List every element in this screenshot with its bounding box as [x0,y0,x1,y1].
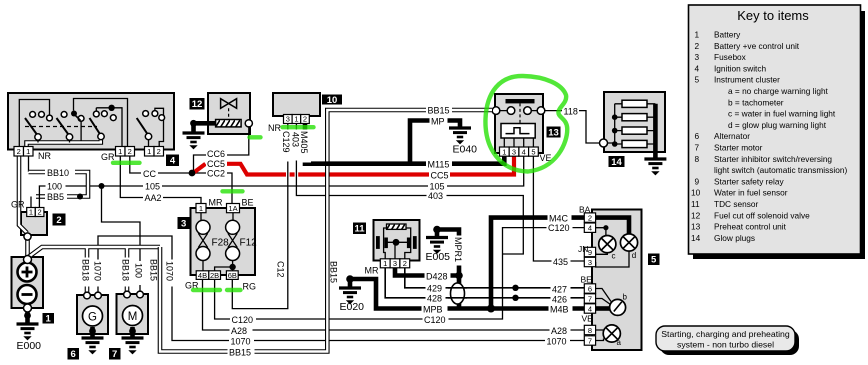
svg-text:MR: MR [209,198,223,208]
switch internal trace group1 to pin2 [19,100,49,147]
label MPB [422,304,448,315]
label 5 [648,254,660,266]
label M4B [549,304,573,315]
svg-text:M115: M115 [428,159,450,169]
svg-text:1: 1 [502,147,506,156]
svg-text:a = no charge warning light: a = no charge warning light [728,86,829,96]
svg-text:BE: BE [242,198,254,208]
TDC coil [387,224,407,229]
timer box with pulse symbol [501,124,535,139]
wire 403 [296,124,523,255]
label MP [430,116,448,127]
wire 435 [533,156,584,261]
svg-text:4: 4 [170,156,176,167]
svg-text:BB5: BB5 [47,192,64,202]
svg-text:E005: E005 [426,251,451,263]
label MPR1 [453,236,465,266]
svg-text:13: 13 [691,222,701,232]
wire BB5 left segment [30,197,32,209]
fuse F28 [200,213,202,221]
svg-text:8: 8 [588,326,592,335]
switch bottom bus stubs [38,140,149,147]
svg-text:1070: 1070 [231,336,251,346]
svg-text:11: 11 [691,199,700,209]
svg-text:Key to items: Key to items [737,8,809,23]
label A28 right [550,325,571,336]
svg-text:14: 14 [611,157,622,168]
starter motor 7 body [117,294,149,334]
title box shadow [660,330,799,355]
svg-text:Battery +ve control unit: Battery +ve control unit [714,41,800,51]
svg-text:4: 4 [522,147,526,156]
label 12 [190,98,205,110]
svg-text:E000: E000 [17,340,42,352]
label CC [141,168,158,179]
svg-text:Fusebox: Fusebox [714,52,747,62]
wire 100/105 net [39,156,523,208]
wire BB10 left segment [28,156,30,172]
svg-text:403: 403 [291,132,301,147]
alternator ground [90,327,95,338]
glow plugs input terminal [600,139,608,147]
switch blade 4 [137,118,149,136]
tachometer b [610,299,626,315]
label 100 starter [134,261,146,285]
label 3 [178,217,191,229]
svg-text:5: 5 [695,75,700,85]
junction CC [189,170,196,177]
svg-text:10: 10 [327,95,338,106]
alternator 6 body [77,295,108,334]
label BB5 [46,192,67,203]
svg-text:MP: MP [431,116,445,126]
junction BB10/BB5 [77,194,83,200]
switch internal trace group3 [96,108,122,147]
svg-text:1: 1 [383,259,387,268]
glow plug elements [622,100,647,107]
svg-text:1: 1 [118,147,122,156]
battery control unit pins 1,2 [27,208,44,217]
svg-text:6: 6 [695,131,700,141]
TDC sensor 11 body [374,220,420,261]
key box [689,5,861,254]
svg-text:2: 2 [588,213,592,222]
svg-text:5: 5 [531,147,535,156]
switch top contacts group4 [143,111,149,117]
svg-text:JN: JN [578,244,588,254]
alternator G symbol [83,306,103,326]
svg-text:light switch (automatic transm: light switch (automatic transmission) [714,165,847,175]
label C120 upper [547,222,573,233]
ground E005 [426,238,448,254]
svg-text:A28: A28 [551,326,567,336]
pin stubs 13 [504,138,533,147]
svg-text:BB10: BB10 [47,168,69,178]
solenoid valve 12 body [208,93,250,134]
svg-text:M: M [128,311,138,323]
wire 118 [545,111,600,143]
svg-text:427: 427 [552,284,567,294]
svg-text:14: 14 [691,233,701,243]
svg-text:CC5: CC5 [431,171,449,181]
battery positive post [24,256,32,264]
label 427 [551,284,571,295]
svg-text:4: 4 [588,304,592,313]
svg-text:7: 7 [112,349,117,360]
wire MP to ground E040 [410,121,460,164]
inline connector oval [451,283,465,304]
label BB18 alternator [81,258,93,287]
label C129 [281,130,294,162]
svg-text:11: 11 [354,224,365,235]
battery plus terminal [18,263,37,282]
label 7 [109,348,121,360]
svg-text:NR: NR [38,151,51,161]
wire M4C branch [491,218,584,309]
svg-text:12: 12 [691,210,701,220]
label M405 [299,130,311,163]
svg-text:a: a [617,338,622,347]
label 435 [552,256,571,267]
label 11 [353,223,366,235]
svg-text:3: 3 [512,147,516,156]
svg-text:1: 1 [199,204,203,213]
svg-text:BE: BE [581,275,593,285]
svg-text:13: 13 [548,127,559,138]
wire AA2 [120,156,201,209]
svg-text:Battery: Battery [714,30,741,40]
glow plugs right bus [647,104,655,144]
svg-text:6: 6 [588,284,592,293]
lamp a feeds [596,330,604,341]
svg-text:8: 8 [695,154,700,164]
svg-text:E020: E020 [340,301,365,313]
svg-text:2: 2 [17,147,21,156]
ground E000 [17,324,39,340]
svg-text:9: 9 [695,176,700,186]
fusebox junction dot [229,264,235,270]
svg-text:429: 429 [427,284,442,294]
label 6 [68,348,80,360]
svg-text:3: 3 [393,259,397,268]
wire MPB / M4B from ground E020 [350,279,584,309]
svg-text:2: 2 [303,115,307,124]
label 1070 right [545,336,570,347]
label 1 [43,313,55,325]
cluster wire to lamp d [596,218,629,234]
svg-text:BB15: BB15 [229,347,251,357]
green circle around preheat unit [485,76,567,172]
wire C129 / C12 [232,124,287,309]
label BB18 starter [121,258,133,287]
battery control unit 2 body [21,212,47,235]
ignition switch 4 body [8,93,174,150]
svg-text:435: 435 [553,257,568,267]
label BB15 top [426,105,452,116]
warning lamp d [620,234,637,251]
svg-text:F28: F28 [212,238,230,249]
svg-text:Ignition switch: Ignition switch [714,63,766,73]
svg-text:4: 4 [588,224,592,233]
switch top contacts group2 [61,112,67,118]
wire 1070 net [98,236,584,341]
svg-text:M4C: M4C [549,213,569,223]
cable control unit to battery post [25,239,30,256]
svg-text:CC5: CC5 [207,159,225,169]
label C120 bottom left [230,314,256,325]
label 100 [46,181,66,192]
svg-text:BB15: BB15 [149,259,159,281]
svg-text:VE: VE [582,314,594,324]
label BB15 bottom [228,347,255,358]
switch bottom bus [27,140,101,148]
label 10 [322,95,342,106]
svg-text:c = water in fuel warning ligh: c = water in fuel warning light [728,109,836,119]
wire CC5 red highlight [193,164,206,174]
top bar [506,99,535,103]
cable battery positive bus [29,247,161,295]
svg-text:G: G [88,312,97,324]
ground at solenoid [183,133,205,149]
ground at glow plugs [644,159,666,175]
switch feed marker dot group2 [71,111,77,117]
switch blade 2 [57,118,70,136]
svg-text:MPB: MPB [423,304,443,314]
svg-text:AA2: AA2 [145,193,162,203]
battery minus terminal [18,285,37,304]
splice 427 [512,285,518,291]
wire CC / CC2 [130,156,232,209]
svg-text:d: d [632,251,636,260]
wire M405 / M115 to preheat pin1 [305,124,504,164]
valve symbol [221,99,237,109]
tachometer feeds [596,289,611,305]
label BB10 [46,167,75,178]
alternator terminals [84,292,91,299]
svg-text:403: 403 [428,191,443,201]
relay contacts [492,107,500,115]
svg-text:2: 2 [695,41,700,51]
svg-text:BA: BA [579,205,591,215]
wire 428/426 [385,268,584,298]
svg-text:c: c [612,252,616,261]
svg-text:D428: D428 [426,271,448,281]
ignition connector3 pins 1,2 [145,147,164,157]
starter motor ground [130,327,135,338]
svg-text:2: 2 [403,259,407,268]
battery control unit lower terminal [24,233,31,240]
fusebox 3 body [191,208,256,275]
svg-text:M4B: M4B [550,304,569,314]
ground E040 [449,128,471,144]
water in fuel sensor 10 body [273,93,320,116]
green mark sensor pins [283,125,314,129]
svg-text:4: 4 [695,63,700,73]
wire C120 net [215,228,585,319]
battery negative post [24,304,32,312]
svg-text:Instrument cluster: Instrument cluster [714,75,780,85]
svg-text:b: b [623,293,628,302]
svg-text:3: 3 [695,52,700,62]
svg-text:100: 100 [47,182,62,192]
svg-text:A28: A28 [231,326,247,336]
fusebox bottom pins 4B,2B,6B [196,271,238,280]
svg-text:105: 105 [430,182,445,192]
ignition connector2 pins 1,2 [116,147,135,157]
svg-text:100: 100 [134,263,144,278]
green mark fusebox 1A [223,189,243,193]
svg-text:Starter safety relay: Starter safety relay [714,176,784,186]
wire 100 branch to starter motor [102,186,141,295]
svg-text:MPR1: MPR1 [453,237,463,262]
green mark fusebox 4B 2B [193,288,220,292]
svg-text:7: 7 [695,143,700,153]
svg-text:2: 2 [56,215,61,226]
svg-text:GR: GR [11,200,25,210]
svg-text:C12: C12 [276,261,286,278]
svg-text:MR: MR [365,266,379,276]
svg-text:12: 12 [192,99,203,110]
label A28 left [230,325,253,336]
switch internal trace group4 [155,108,164,146]
svg-text:6B: 6B [228,271,237,280]
key box shadow [693,11,865,259]
label CC2 [206,168,227,178]
fusebox top pins 1,1A [196,204,240,213]
svg-text:9: 9 [588,248,592,257]
TDC pins 1,3,2 [380,259,409,268]
svg-text:Starter motor: Starter motor [714,143,763,153]
switch blade 1 [25,118,38,136]
battery 1 body [12,257,44,308]
svg-text:BB18: BB18 [121,259,131,281]
svg-text:10: 10 [691,188,701,198]
svg-text:105: 105 [145,182,160,192]
label CC6 [206,149,227,160]
label 4 [166,155,179,167]
svg-text:d = glow plug warning light: d = glow plug warning light [728,120,827,130]
battery negative to ground E000 [25,308,30,324]
fuse F12 [232,213,234,221]
switch bottom contacts [35,134,41,140]
svg-text:426: 426 [552,294,567,304]
svg-text:Glow plugs: Glow plugs [714,233,755,243]
wire 429/427 [405,268,585,288]
switch feed marker dot group3 [108,105,114,111]
label 105 left [143,181,162,192]
svg-text:NR: NR [268,123,281,133]
label 1070 alternator [93,260,105,287]
svg-text:CC: CC [143,169,156,179]
svg-text:Fuel cut off solenoid valve: Fuel cut off solenoid valve [714,210,810,220]
cable battery positive from ignition pin2 [19,156,27,233]
svg-text:428: 428 [427,294,442,304]
svg-text:RG: RG [243,282,257,292]
svg-text:C120: C120 [424,315,446,325]
green mark solenoid output [250,135,261,139]
wire CC6 [194,127,249,173]
label 426 [551,294,571,305]
ground E020 [346,275,354,283]
svg-text:CC2: CC2 [207,169,225,179]
label 1070 vertical [165,260,177,287]
svg-text:C120: C120 [548,223,570,233]
preheat control unit 13 body [495,94,543,153]
svg-text:BB15: BB15 [428,106,450,116]
solenoid coil [216,120,242,127]
svg-text:3: 3 [181,218,186,229]
warning lamp c [599,236,616,253]
switch internal trace group2 top [74,99,128,147]
svg-text:2: 2 [157,147,161,156]
svg-text:7: 7 [588,294,592,303]
wire A28 [203,279,585,330]
label AA2 [143,193,163,204]
starter motor terminals [124,291,131,298]
water sensor pins 3,1,2 [284,115,310,124]
svg-text:Starter inhibitor switch/rever: Starter inhibitor switch/reversing [714,154,832,164]
label CC5 right [429,170,450,180]
label D428 [425,271,451,282]
label 14 [609,156,625,168]
svg-text:7: 7 [588,336,592,345]
TDC side loops [384,228,411,259]
svg-text:2: 2 [128,147,132,156]
cluster wire to lamp c [596,228,606,236]
ignition connector1 pins 2,1 [14,147,33,157]
svg-text:1: 1 [29,208,33,217]
cluster pins [584,213,595,345]
green mark fusebox 6B [227,288,241,292]
svg-text:6: 6 [71,349,76,360]
label 1070 left [229,336,254,347]
wire D428 [395,268,459,276]
crossing wires white halo over red [288,168,297,182]
svg-text:1: 1 [46,314,52,325]
lamp d to pin3 [596,251,629,267]
svg-text:F12: F12 [240,238,258,249]
label 13 [547,127,561,139]
svg-text:CC6: CC6 [207,149,225,159]
TDC pin stubs [394,242,396,258]
svg-text:BB18: BB18 [81,259,91,281]
title box [656,326,795,351]
svg-text:TDC sensor: TDC sensor [714,199,758,209]
switch top contacts group3 [93,111,99,117]
svg-text:3: 3 [286,115,290,124]
svg-text:1: 1 [26,147,30,156]
svg-text:Water in fuel sensor: Water in fuel sensor [714,188,788,198]
svg-text:Alternator: Alternator [714,131,750,141]
cable BB10 right segment joining BB5 [67,172,88,197]
switch internal stub group2 right [80,121,82,142]
glow plugs left bus [608,104,623,144]
label 429 [426,283,446,294]
contact links [496,110,541,112]
svg-text:E040: E040 [453,144,478,156]
label M115 [426,159,452,170]
label 118 [562,106,579,117]
junction D428/MPR1 [455,272,463,280]
preheat pins 1,3,4,5 [500,147,539,156]
switch blade 3 [90,118,102,136]
starter motor M symbol [123,306,143,326]
svg-text:1: 1 [147,147,151,156]
svg-text:2B: 2B [210,271,219,280]
wire MPR1 from ground E005 [437,230,459,309]
svg-text:Starting, charging and preheat: Starting, charging and preheating [661,329,790,339]
solenoid feed wire [194,121,217,126]
